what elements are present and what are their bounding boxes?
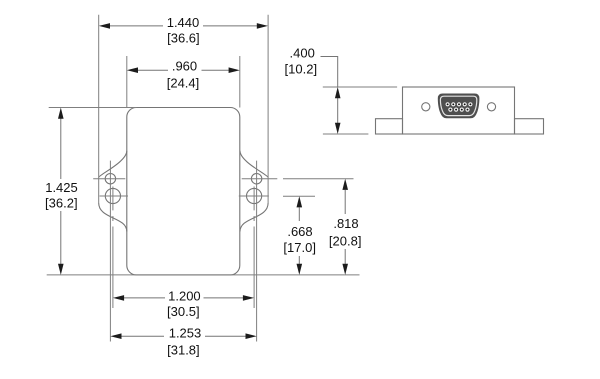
.400 dimension line [337, 98, 339, 123]
front view body outline [127, 108, 240, 275]
svg-text:[30.5]: [30.5] [167, 304, 200, 319]
svg-text:[10.2]: [10.2] [285, 62, 318, 77]
dimension .818 line [344, 190, 346, 264]
svg-text:[20.8]: [20.8] [329, 233, 362, 248]
svg-text:[36.6]: [36.6] [167, 30, 200, 45]
svg-text:[24.4]: [24.4] [167, 76, 200, 91]
left small hole [105, 174, 115, 184]
1.425 top extension line [49, 107, 137, 109]
dimension 1.200 line [124, 297, 243, 299]
DE-9 connector shell [438, 94, 480, 119]
svg-text:[17.0]: [17.0] [283, 240, 316, 255]
right jack screw hole [487, 103, 495, 111]
side view body [403, 87, 515, 134]
dimension 1.425 line [60, 119, 62, 264]
.960 right extension line [239, 56, 241, 108]
side view left tab [376, 119, 403, 134]
left large hole horizontal centerline [100, 195, 129, 197]
.668 extension line [283, 195, 315, 197]
.818 extension line [283, 178, 354, 180]
right small hole [251, 174, 261, 184]
svg-text:1.425: 1.425 [45, 180, 78, 195]
.960 left extension line [126, 56, 128, 108]
.400 bottom extension line [323, 133, 369, 135]
left large hole vertical centerline / 1.200 extension [112, 187, 114, 309]
left small hole vertical centerline / 1.253 extension [109, 161, 111, 342]
svg-text:1.200: 1.200 [168, 289, 201, 304]
dimension 1.253 line [121, 335, 245, 337]
svg-text:[31.8]: [31.8] [167, 343, 200, 358]
right small hole vertical centerline / 1.253 extension [256, 161, 258, 342]
right mounting flange outline [240, 151, 268, 232]
1.440 left extension line [98, 15, 100, 203]
svg-text:[36.2]: [36.2] [45, 195, 78, 210]
side view right tab [515, 119, 544, 134]
svg-text:.400: .400 [290, 46, 315, 61]
1.440 right extension line [267, 15, 269, 203]
right large hole horizontal centerline [239, 195, 269, 197]
svg-text:.668: .668 [287, 224, 312, 239]
left mounting flange outline [99, 151, 127, 232]
svg-text:.818: .818 [333, 216, 358, 231]
right large hole vertical centerline / 1.200 extension [253, 187, 255, 309]
dimension 1.440 line [110, 25, 257, 27]
svg-text:1.253: 1.253 [169, 325, 202, 340]
DE-9 pins bottom row [448, 108, 469, 112]
DE-9 connector inner highlight ring [440, 96, 476, 115]
.400 leader line [321, 57, 338, 88]
bottom reference extension line [47, 274, 360, 276]
dimension .668 line [298, 208, 300, 264]
left small hole horizontal centerline [93, 178, 125, 180]
right small hole horizontal centerline [242, 178, 278, 180]
DE-9 pins top row [446, 102, 473, 106]
dimension .960 line [138, 69, 229, 71]
svg-text:1.440: 1.440 [167, 15, 200, 30]
left large hole [105, 188, 120, 203]
svg-text:.960: .960 [172, 59, 197, 74]
.400 top extension line [323, 86, 397, 88]
right large hole [247, 188, 262, 203]
left jack screw hole [422, 103, 430, 111]
